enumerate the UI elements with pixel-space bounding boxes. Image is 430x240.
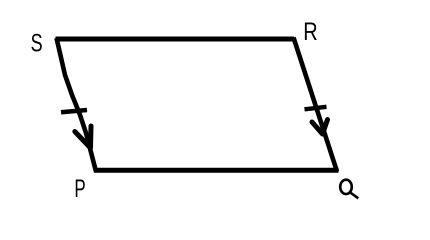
side RQ (right) bbox=[294, 38, 338, 172]
side SP (left) bbox=[57, 38, 97, 172]
tick on SP bbox=[61, 110, 87, 112]
tick on RQ bbox=[305, 107, 327, 110]
svg-text:S: S bbox=[31, 29, 43, 58]
side PQ (bottom) bbox=[94, 168, 339, 173]
svg-text:P: P bbox=[74, 175, 85, 203]
arrowhead on RQ bbox=[312, 120, 328, 135]
side SR (top) bbox=[56, 37, 295, 42]
svg-text:R: R bbox=[303, 18, 317, 46]
label Q bbox=[340, 180, 358, 199]
arrowhead on SP bbox=[75, 126, 91, 148]
